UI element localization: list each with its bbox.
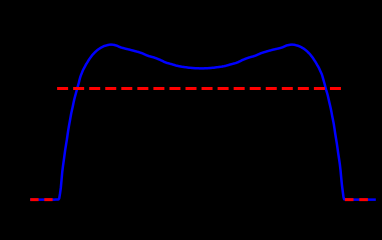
- blue response curve: [30, 45, 376, 200]
- red dashed segment bottom-right: [345, 198, 368, 201]
- red dashed ideal level line (top): [57, 87, 341, 90]
- red dashed segment bottom-left: [30, 198, 53, 201]
